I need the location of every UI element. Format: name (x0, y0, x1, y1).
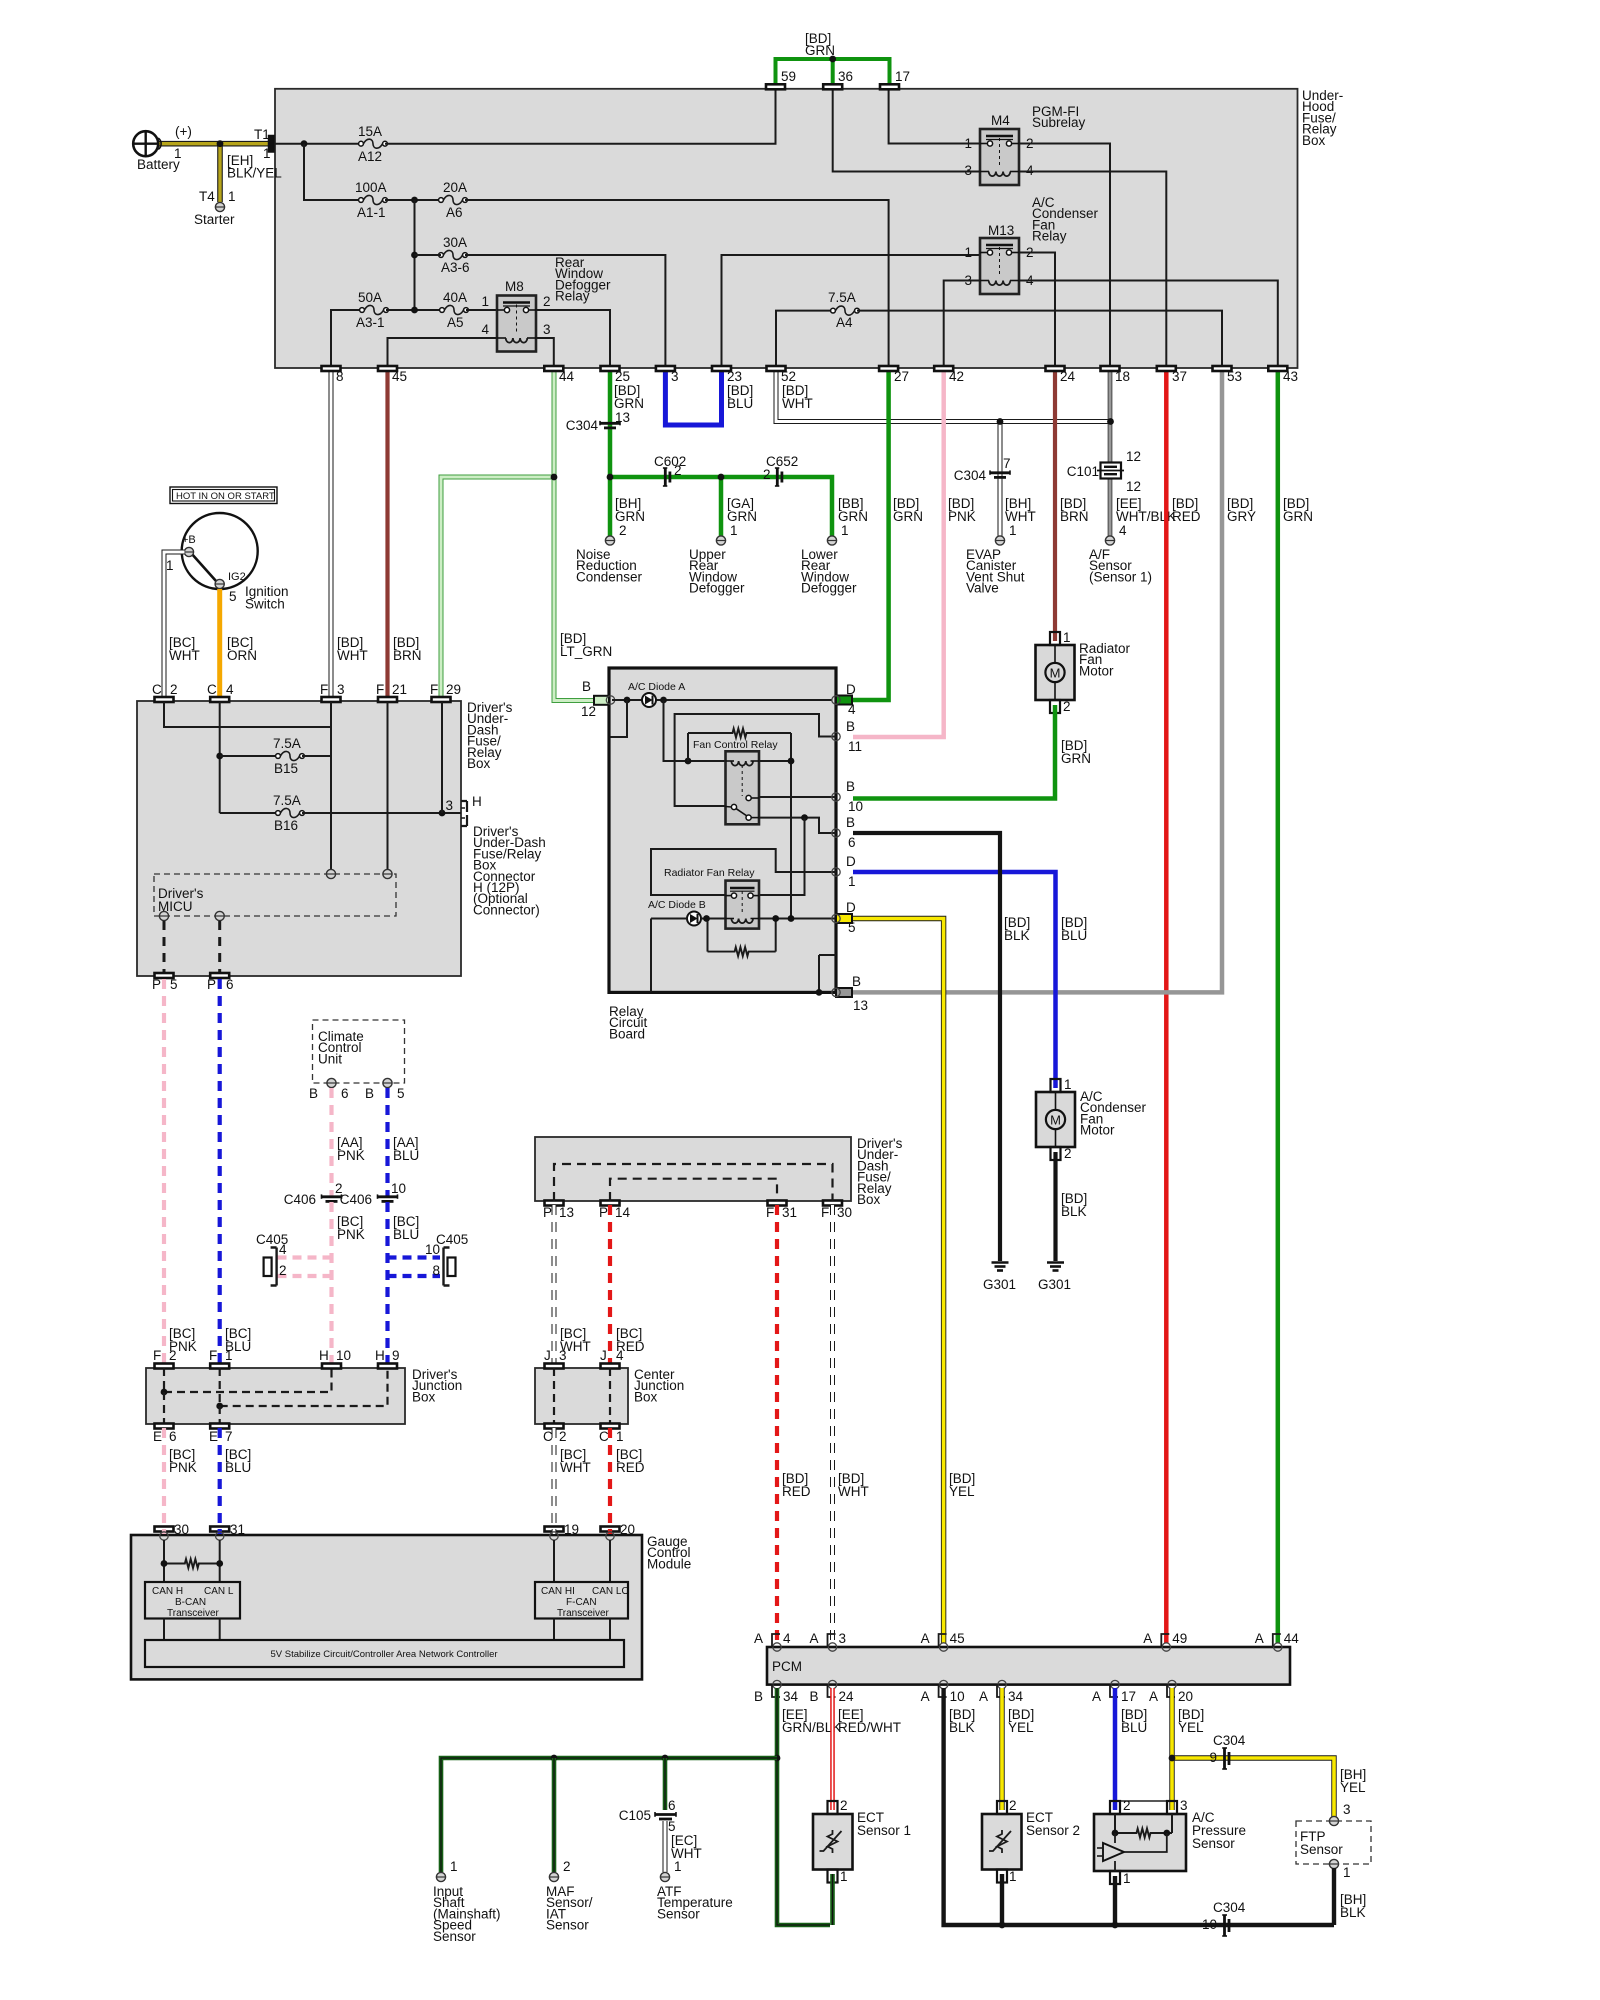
F-CAN Transceiver box (535, 1582, 628, 1619)
svg-text:1: 1 (1343, 1865, 1351, 1880)
svg-text:G301: G301 (1038, 1277, 1071, 1292)
svg-text:6: 6 (341, 1086, 349, 1101)
svg-text:[AA]BLU: [AA]BLU (393, 1135, 419, 1163)
svg-text:1: 1 (166, 558, 174, 573)
svg-text:2: 2 (1123, 1798, 1131, 1813)
fan control relay NO contact to B10 (759, 796, 836, 798)
junction dot ATF branch (662, 1755, 669, 1762)
junction dot diode A left (624, 697, 631, 704)
svg-text:D: D (846, 900, 856, 915)
svg-text:A/C Diode B: A/C Diode B (648, 899, 706, 911)
svg-text:100A: 100A (355, 180, 387, 195)
lower defogger terminal 1 (827, 536, 836, 545)
wire 7.5A to connector 53 drop (857, 311, 1222, 366)
svg-text:1: 1 (263, 146, 271, 161)
connector C304 pin 7 (990, 471, 1010, 474)
wire 25 GRN down (608, 369, 613, 536)
svg-text:10: 10 (425, 1242, 440, 1257)
svg-text:[BH]BLK: [BH]BLK (1340, 1892, 1366, 1920)
svg-text:[BD]YEL: [BD]YEL (1178, 1707, 1204, 1735)
connector H10 (322, 1364, 341, 1369)
svg-text:1: 1 (225, 1348, 233, 1363)
AC pressure internal resistor (1114, 1814, 1116, 1833)
wire BD RED F31 to PCM A4 (775, 1205, 779, 1643)
inner wire to B13 (819, 954, 836, 956)
ECT Sensor 1 (813, 1814, 853, 1870)
svg-text:D: D (846, 854, 856, 869)
PCM pin A3 (828, 1643, 836, 1651)
svg-text:[BD]WHT: [BD]WHT (782, 383, 813, 411)
wire BC BLU to C405 and H9 (385, 1202, 389, 1364)
svg-text:24: 24 (1060, 369, 1076, 384)
svg-text:F: F (209, 1348, 217, 1363)
wire EC WHT ATF (663, 1821, 668, 1872)
svg-text:24: 24 (839, 1689, 855, 1704)
svg-text:M4: M4 (991, 113, 1010, 128)
wire F21 internal down to MICU (387, 702, 389, 871)
svg-text:P: P (599, 1205, 608, 1220)
wire 7.5A A4 row from connector 52 (776, 311, 832, 366)
svg-text:[BD]WHT: [BD]WHT (337, 635, 368, 663)
connector C2 (155, 697, 174, 702)
svg-text:B: B (754, 1689, 763, 1704)
svg-text:12: 12 (1126, 449, 1141, 464)
wire B6 BLK to ground (853, 833, 1000, 1261)
Fan Control Relay (726, 751, 760, 824)
svg-text:C405: C405 (436, 1232, 468, 1247)
connector F29 (432, 697, 451, 702)
ignition switch circle (182, 513, 258, 589)
svg-text:1: 1 (481, 294, 489, 309)
svg-text:7.5A: 7.5A (828, 290, 856, 305)
connector E7 (210, 1424, 229, 1429)
B10 connector (832, 793, 840, 801)
svg-text:10: 10 (950, 1689, 965, 1704)
svg-text:A3-6: A3-6 (441, 260, 470, 275)
svg-text:29: 29 (446, 682, 461, 697)
fan control relay NC contact to B6 (759, 818, 836, 833)
fuse 7.5A B16 (220, 812, 277, 814)
FTP terminal 1 (1329, 1859, 1338, 1868)
svg-text:C105: C105 (619, 1808, 651, 1823)
svg-text:PGM-FISubrelay: PGM-FISubrelay (1032, 104, 1086, 130)
svg-text:B15: B15 (274, 761, 298, 776)
svg-text:[BC]ORN: [BC]ORN (227, 635, 257, 663)
svg-text:42: 42 (949, 369, 964, 384)
svg-text:3: 3 (543, 322, 551, 337)
svg-text:50A: 50A (358, 290, 382, 305)
svg-text:5: 5 (397, 1086, 405, 1101)
feed drop to 100A row (304, 144, 360, 200)
wire GA GRN drop (719, 477, 724, 536)
svg-text:B: B (846, 815, 855, 830)
wire D5 YEL to PCM A45 (853, 919, 944, 1644)
MICU terminal F21 (383, 869, 392, 878)
wire M8 pin 3 to connector 44 (536, 338, 554, 366)
wire diode B left leg to board edge (650, 919, 652, 992)
svg-text:8: 8 (336, 369, 344, 384)
wire BC WHT P13 to J3 (552, 1205, 557, 1364)
junction dot B15 feed (216, 753, 223, 760)
B-CAN Transceiver box (145, 1582, 240, 1619)
svg-text:2: 2 (563, 1859, 571, 1874)
svg-text:3: 3 (559, 1348, 567, 1363)
svg-text:[BC]BLU: [BC]BLU (393, 1214, 419, 1242)
svg-text:4: 4 (279, 1242, 287, 1257)
wire ATF drop green (663, 1758, 668, 1810)
svg-text:M13: M13 (988, 223, 1014, 238)
connector J3 (545, 1364, 564, 1369)
svg-text:30: 30 (174, 1522, 189, 1537)
ignition +B terminal (184, 547, 193, 556)
svg-text:10: 10 (1202, 1917, 1217, 1932)
svg-text:C304: C304 (1213, 1900, 1246, 1915)
connector H of driver's box (461, 801, 467, 826)
connector 18 (1101, 366, 1120, 371)
climate terminal B6 (327, 1078, 336, 1087)
svg-text:M8: M8 (505, 279, 524, 294)
wire 18 white WHT/BLK to A/F sensor (1107, 369, 1109, 536)
Relay Circuit Board box (609, 668, 836, 992)
wire 42 PNK to relay board B11 (853, 369, 944, 737)
A/C Diode A (642, 693, 656, 707)
wire BH YEL to FTP (1172, 1758, 1334, 1817)
svg-text:2: 2 (619, 523, 627, 538)
connector 43 (1268, 366, 1287, 371)
connector 20 (601, 1527, 620, 1532)
junction dot coil left (685, 758, 692, 765)
svg-text:4: 4 (481, 322, 489, 337)
FTP Sensor dashed box (1296, 1821, 1371, 1864)
wire M13 pin 2 to connector 24 (1019, 253, 1055, 367)
svg-text:A/C Diode A: A/C Diode A (628, 681, 685, 693)
connector P6 (210, 973, 229, 978)
wire M8 pin 2 to connector 25 (536, 310, 610, 366)
connector P13 (545, 1201, 564, 1206)
fan control relay coil right to radiator coil (759, 761, 791, 919)
svg-text:1: 1 (848, 874, 856, 889)
svg-text:[BC]PNK: [BC]PNK (169, 1447, 197, 1475)
Radiator Fan Motor (1036, 645, 1075, 700)
svg-text:C652: C652 (766, 454, 798, 469)
wire C2 internal to F3 line (164, 702, 331, 727)
wire 15A to connector 59 (385, 87, 776, 144)
svg-text:5: 5 (848, 920, 856, 935)
PCM pin A34 (998, 1680, 1006, 1688)
svg-text:J: J (600, 1348, 607, 1363)
svg-text:45: 45 (950, 1631, 965, 1646)
svg-text:C: C (152, 682, 162, 697)
svg-text:34: 34 (1008, 1689, 1024, 1704)
svg-text:[BD]BRN: [BD]BRN (393, 635, 422, 663)
svg-text:1: 1 (1064, 1077, 1072, 1092)
svg-text:1: 1 (1009, 523, 1017, 538)
svg-text:C: C (599, 1429, 609, 1444)
wire EVAP white drop (998, 422, 1003, 537)
svg-text:[GA]GRN: [GA]GRN (727, 496, 757, 524)
wire 50A row from connector 8 (331, 310, 361, 366)
wire 100A to junction (385, 199, 440, 201)
MICU terminal P5 (159, 911, 168, 920)
wire BC PNK to C405 and H10 (329, 1202, 333, 1364)
svg-text:49: 49 (1172, 1631, 1187, 1646)
connector 59 (766, 84, 785, 89)
fuse 7.5A B15 (220, 755, 277, 757)
svg-text:19: 19 (564, 1522, 579, 1537)
wire B34 EE GRN/BLK (777, 1688, 830, 1925)
connector F3 (322, 697, 341, 702)
wire M4 pin 2 to connector 18 (1019, 144, 1110, 367)
svg-text:6: 6 (848, 835, 856, 850)
Climate Control Unit dashed box (313, 1020, 405, 1083)
connector 19 (545, 1527, 564, 1532)
connector C405 right (444, 1248, 450, 1286)
svg-text:RelayCircuitBoard: RelayCircuitBoard (609, 1004, 648, 1041)
svg-text:[BC]RED: [BC]RED (616, 1447, 645, 1475)
CAN termination resistor (164, 1559, 220, 1568)
svg-text:44: 44 (1284, 1631, 1300, 1646)
svg-text:45: 45 (392, 369, 407, 384)
svg-text:7: 7 (1003, 456, 1011, 471)
ignition IG2 terminal (215, 579, 224, 588)
svg-text:5: 5 (170, 977, 178, 992)
noise condenser terminal 2 (605, 536, 614, 545)
wire connector 17 to M4 pin 1 (889, 87, 980, 144)
svg-text:F: F (430, 682, 438, 697)
svg-text:2: 2 (169, 1348, 177, 1363)
svg-text:A: A (921, 1631, 930, 1646)
gauge terminal 19 (550, 1532, 558, 1540)
wire MAF drop (552, 1758, 557, 1872)
connector 3 (656, 366, 675, 371)
svg-text:17: 17 (895, 69, 910, 84)
connector C101 pin 12 (1101, 463, 1122, 479)
svg-text:2: 2 (559, 1429, 567, 1444)
svg-text:T1: T1 (254, 127, 270, 142)
ground G301 right (1047, 1261, 1064, 1264)
wire LT_GRN branch to F29 (441, 477, 554, 698)
wire condenser motor pin2 BLK to ground (1053, 1152, 1057, 1261)
wire 40A to M8 pin 1 (466, 309, 497, 311)
wire NC branch down to radiator relay switch (759, 818, 805, 895)
fan control relay resistor branch (687, 733, 689, 761)
connector F30 (823, 1201, 842, 1206)
wire 50A to 40A (386, 309, 441, 311)
connector C304 pin 10 (1223, 1915, 1226, 1936)
connector E6 (155, 1424, 174, 1429)
connector 27 (879, 366, 898, 371)
svg-text:[BD]GRN: [BD]GRN (1061, 738, 1091, 766)
svg-text:B: B (846, 719, 855, 734)
svg-text:30: 30 (837, 1205, 852, 1220)
D5 connector (836, 914, 852, 923)
junction dot 25 green (607, 474, 614, 481)
svg-text:C304: C304 (954, 468, 987, 483)
junction dot 40A row (411, 307, 418, 314)
svg-text:3: 3 (1343, 1802, 1351, 1817)
PCM pin B34 (773, 1680, 781, 1688)
wire ignition +B to C2 white (164, 552, 185, 698)
svg-text:B: B (582, 679, 591, 694)
wire [BD] GRN top link (776, 59, 890, 84)
connector 24 (1046, 366, 1065, 371)
svg-text:[EC]WHT: [EC]WHT (671, 1833, 702, 1861)
wire diode A to fan relay coil (664, 700, 726, 761)
svg-text:B: B (846, 779, 855, 794)
svg-text:F: F (821, 1205, 829, 1220)
svg-text:[BD]BLK: [BD]BLK (1061, 1191, 1087, 1219)
PCM pin A4 (773, 1643, 781, 1651)
gauge terminal 30 (160, 1532, 168, 1540)
PCM pin A49 (1162, 1643, 1170, 1651)
svg-text:31: 31 (230, 1522, 245, 1537)
ground G301 left (992, 1261, 1009, 1264)
connector C405 left (271, 1248, 277, 1286)
svg-text:1: 1 (840, 1869, 848, 1884)
svg-text:C304: C304 (566, 418, 599, 433)
wire AA PNK climate (329, 1088, 333, 1196)
connector F31 (768, 1201, 787, 1206)
svg-text:Starter: Starter (194, 212, 235, 227)
wire ECT2 pin1 BLK (1000, 1874, 1004, 1925)
wire C405 blue jumpers (388, 1255, 441, 1259)
Radiator Fan Relay (726, 881, 760, 929)
connector C105 (655, 1813, 676, 1816)
junction dot 30A row (411, 252, 418, 259)
svg-text:1: 1 (450, 1859, 458, 1874)
svg-text:A6: A6 (446, 205, 463, 220)
svg-text:[BD]RED: [BD]RED (782, 1471, 811, 1499)
svg-text:43: 43 (1283, 369, 1298, 384)
svg-text:Fan Control Relay: Fan Control Relay (693, 739, 778, 751)
svg-text:2: 2 (279, 1263, 287, 1278)
A/C Pressure Sensor (1094, 1814, 1186, 1871)
connector 25 (601, 366, 620, 371)
svg-text:A5: A5 (447, 315, 464, 330)
svg-text:2: 2 (170, 682, 178, 697)
svg-text:PCM: PCM (772, 1659, 802, 1674)
svg-text:[BD]GRN: [BD]GRN (614, 383, 644, 411)
connector C406 pin 2 (322, 1195, 342, 1198)
lower box bus1 dashed (554, 1164, 833, 1201)
connector H9 (378, 1364, 397, 1369)
wire BC WHT C2 to gauge 19 (552, 1428, 557, 1528)
svg-text:B: B (309, 1086, 318, 1101)
Driver's Under-Dash Fuse/Relay Box (lower) (535, 1137, 851, 1201)
connector C602 (664, 468, 667, 486)
svg-text:52: 52 (781, 369, 796, 384)
svg-text:20A: 20A (443, 180, 467, 195)
wire ECT1 pin1 green to B34 line (830, 1874, 835, 1925)
svg-text:6: 6 (668, 1798, 676, 1813)
wire A20 BD YEL to AC pressure pin3 (1169, 1688, 1174, 1810)
svg-text:20: 20 (1178, 1689, 1193, 1704)
svg-text:1: 1 (964, 245, 972, 260)
svg-text:A: A (921, 1689, 930, 1704)
relay M4 PGM-FI Subrelay (980, 129, 1019, 185)
svg-text:[BC]WHT: [BC]WHT (169, 635, 200, 663)
wire diode B line (651, 918, 687, 920)
wire T1 to 15A fuse (274, 143, 360, 145)
wire B24 EE RED/WHT to ECT1 (830, 1688, 835, 1810)
svg-text:A: A (754, 1631, 763, 1646)
svg-text:2: 2 (1063, 699, 1071, 714)
svg-text:2: 2 (840, 1798, 848, 1813)
B13 connector (836, 988, 852, 997)
relay M8 Rear Window Defogger Relay (497, 296, 536, 352)
svg-text:31: 31 (782, 1205, 797, 1220)
wire 43 GRN to PCM A44 (1276, 369, 1281, 1643)
battery (133, 131, 158, 156)
wire BC BLU P6 to F1 (218, 979, 222, 1364)
svg-text:13: 13 (853, 998, 868, 1013)
svg-text:J: J (544, 1348, 551, 1363)
wire defogger green bus (610, 477, 832, 536)
svg-text:40A: 40A (443, 290, 467, 305)
wire MICU P5 dashed (163, 921, 166, 973)
svg-text:B: B (809, 1689, 818, 1704)
svg-text:13: 13 (559, 1205, 574, 1220)
svg-text:[BD]GRY: [BD]GRY (1227, 496, 1256, 524)
PCM pin A44 (1274, 1643, 1282, 1651)
svg-text:[BD]BLK: [BD]BLK (1004, 915, 1030, 943)
svg-text:9: 9 (1209, 1750, 1217, 1765)
svg-text:1: 1 (1123, 1871, 1131, 1886)
svg-text:44: 44 (559, 369, 575, 384)
junction dot NC branch (801, 814, 808, 821)
svg-text:30A: 30A (443, 235, 467, 250)
svg-text:[BD]WHT: [BD]WHT (838, 1471, 869, 1499)
svg-text:[BH]YEL: [BH]YEL (1340, 1767, 1366, 1795)
junction dot battery/starter (217, 140, 224, 147)
gauge wire 31 down (219, 1540, 221, 1582)
svg-text:10: 10 (848, 799, 863, 814)
svg-text:1: 1 (674, 1859, 682, 1874)
svg-text:HOT IN ON OR START: HOT IN ON OR START (176, 491, 275, 502)
gauge wire 20 down (609, 1540, 611, 1582)
junction dot C304-9 branch (1169, 1755, 1176, 1762)
svg-text:3: 3 (337, 682, 345, 697)
A/F sensor terminal 4 (1105, 536, 1114, 545)
wire connector 36 to M4 pin 3 (833, 87, 980, 172)
svg-text:F: F (766, 1205, 774, 1220)
PCM pin A45 (939, 1643, 947, 1651)
connector 52 (767, 366, 786, 371)
svg-text:3: 3 (1180, 1798, 1188, 1813)
junction dot A1-1 out (411, 197, 418, 204)
svg-text:[BC]BLU: [BC]BLU (225, 1447, 251, 1475)
svg-text:[BH]WHT: [BH]WHT (1005, 496, 1036, 524)
svg-text:9: 9 (392, 1348, 400, 1363)
climate terminal B5 (383, 1078, 392, 1087)
svg-text:4: 4 (226, 682, 234, 697)
svg-text:A: A (1143, 1631, 1152, 1646)
wire 3 to 23 BD BLU jumper (665, 369, 721, 425)
svg-text:6: 6 (169, 1429, 177, 1444)
PCM box (767, 1647, 1290, 1685)
B11 connector (832, 732, 840, 740)
svg-text:[BD]BLK: [BD]BLK (949, 1707, 975, 1735)
svg-text:F-CAN: F-CAN (566, 1597, 597, 1608)
MICU terminal F3 (326, 869, 335, 878)
svg-text:[BD]BLU: [BD]BLU (727, 383, 753, 411)
A/C Diode B (687, 912, 701, 926)
svg-text:1: 1 (841, 523, 849, 538)
svg-text:[BD]RED: [BD]RED (1172, 496, 1201, 524)
PCM pin A10 (939, 1680, 947, 1688)
svg-text:[BC]PNK: [BC]PNK (337, 1214, 365, 1242)
connector C1 cjb (601, 1424, 620, 1429)
